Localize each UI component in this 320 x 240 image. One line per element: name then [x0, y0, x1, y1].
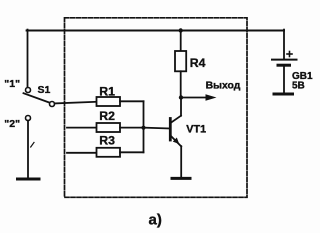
ground bar emitter: [172, 177, 190, 180]
svg-text:"1": "1": [4, 78, 20, 90]
wire left drop to switch: [27, 30, 29, 88]
wire R2 to bus: [120, 127, 144, 129]
svg-text:R3: R3: [99, 133, 115, 147]
node "1" terminal circle: [26, 88, 31, 93]
resistor R3: [97, 148, 121, 157]
wire R3 to bus: [120, 151, 144, 153]
svg-text:VT1: VT1: [186, 124, 206, 136]
wire collector up to output node: [180, 98, 182, 116]
svg-text:R2: R2: [99, 109, 115, 123]
plus sign: [287, 52, 292, 57]
wire output arrow: [181, 97, 208, 99]
wire R3 left stub: [67, 152, 97, 154]
node output junction: [179, 95, 183, 99]
resistor R1: [97, 97, 121, 106]
switch S1 lever: [24, 93, 50, 103]
dashed block outline: [65, 18, 248, 198]
resistor R4: [175, 51, 186, 71]
svg-text:S1: S1: [38, 84, 51, 96]
ground bar battery: [274, 93, 293, 96]
node bus junction: [141, 126, 145, 130]
wire terminal 2 to ground: [27, 121, 29, 178]
transistor VT1: [170, 116, 181, 147]
wire top supply rail: [27, 30, 284, 32]
resistor R2: [97, 123, 121, 132]
tick mark on wire: [31, 142, 34, 147]
svg-text:R1: R1: [99, 84, 115, 98]
wire bus vertical: [143, 101, 145, 152]
svg-text:Выход: Выход: [206, 81, 241, 92]
wire R2 left stub: [67, 127, 97, 129]
svg-text:R4: R4: [190, 56, 206, 70]
svg-text:5В: 5В: [292, 81, 305, 92]
wire battery drop: [283, 30, 285, 59]
wire switch to R1: [55, 102, 97, 104]
ground bar left: [18, 178, 40, 181]
wire R4 to output node: [180, 71, 182, 97]
wire bus to base: [144, 127, 170, 130]
battery GB1 plates: [272, 60, 297, 66]
wire R1 to bus: [120, 100, 144, 102]
node junction top rail: [179, 28, 183, 32]
node switch common circle: [50, 102, 55, 107]
node "2" terminal circle: [26, 116, 31, 121]
wire emitter down: [180, 146, 182, 177]
wire rail to R4: [180, 31, 182, 52]
svg-text:"2": "2": [4, 118, 20, 130]
svg-text:а): а): [149, 212, 162, 229]
wire battery to ground: [283, 67, 285, 93]
